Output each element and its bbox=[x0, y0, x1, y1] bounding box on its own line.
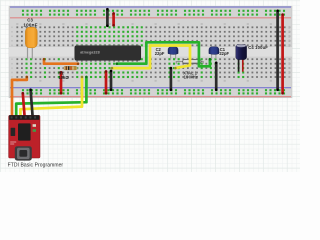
svg-text:16 MHz: 16 MHz bbox=[184, 75, 198, 80]
wire: yellow FTDI TX to row j bbox=[20, 77, 82, 117]
capacitor C2 22pF leads bbox=[171, 52, 176, 59]
wire: red jumper far right, top rail to bottom rail bbox=[281, 15, 284, 94]
wire: red jumper row i to + rail (mid) bbox=[105, 72, 108, 94]
capacitor C2 22pF body bbox=[168, 47, 178, 55]
svg-text:100nF: 100nF bbox=[23, 22, 37, 27]
main grid holes rows f-j bbox=[16, 58, 290, 78]
svg-text:C4 100uF: C4 100uF bbox=[248, 45, 268, 50]
FTDI small component bbox=[11, 128, 16, 136]
wire: black C2 ground to - rail bbox=[170, 68, 173, 90]
wire: orange jumper row f to reset row g bbox=[44, 59, 78, 64]
FTDI status LEDs and silk bbox=[33, 124, 36, 127]
wire: red jumper top rail to IC power column bbox=[112, 14, 115, 26]
resistor R1 10k body bbox=[64, 66, 77, 70]
IC U1 atmega328 body bbox=[75, 46, 141, 61]
capacitor C1 22pF body bbox=[209, 47, 219, 55]
resistor R1 leads bbox=[62, 67, 78, 69]
wire: black jumper top rail to IC power column bbox=[106, 9, 109, 26]
wire: green XTAL loop pin to C1 column bbox=[117, 42, 210, 66]
capacitor C1 22pF leads bbox=[212, 52, 216, 59]
capacitor C3 100nF leads bbox=[28, 44, 33, 59]
svg-text:10kΩ: 10kΩ bbox=[58, 75, 69, 80]
breadboard margin markings bbox=[11, 23, 290, 82]
power rail red line (top) bbox=[10, 17, 291, 18]
svg-text:22pF: 22pF bbox=[155, 51, 165, 56]
canvas grid background bbox=[0, 0, 300, 172]
wire: black jumper row i to - rail (mid) bbox=[110, 71, 113, 90]
capacitor C4 100uF negative lead (black) bbox=[238, 58, 240, 72]
power rail blue line (top) bbox=[10, 6, 291, 7]
svg-text:atmega328: atmega328 bbox=[80, 50, 100, 54]
capacitor C3 100nF body bbox=[25, 27, 37, 48]
crystal XTAL1 16 MHz body bbox=[183, 59, 201, 64]
capacitor C4 100uF body bbox=[236, 44, 247, 59]
svg-text:22pF: 22pF bbox=[219, 51, 229, 56]
wire: yellow XTAL loop pin to C2 column bbox=[112, 46, 190, 69]
wire: red FTDI power to + rail bbox=[23, 93, 25, 116]
breadboard center channel bbox=[9, 47, 292, 57]
wire: black FTDI ground to - rail bbox=[31, 90, 33, 117]
FTDI Basic Programmer board bbox=[9, 115, 40, 158]
FTDI IC chip bbox=[18, 123, 31, 140]
breadboard body bbox=[9, 6, 292, 98]
wire: green FTDI RX to row j bbox=[16, 77, 86, 117]
power rail blue line (bottom) bbox=[10, 87, 291, 88]
svg-text:FTDI Basic Programmer: FTDI Basic Programmer bbox=[8, 162, 64, 168]
main grid holes rows a-e bbox=[16, 26, 290, 46]
power rail red line (bottom) bbox=[10, 96, 291, 97]
wire: red jumper row i to + rail (left) bbox=[60, 72, 63, 93]
wire: orange from row j to FTDI VCC bbox=[12, 77, 27, 117]
power rail holes (all connected, green) bbox=[22, 10, 285, 95]
crystal XTAL1 leads bbox=[176, 62, 203, 64]
FTDI mini-USB connector bbox=[15, 146, 32, 160]
wire: black C1 ground to - rail bbox=[215, 63, 218, 90]
capacitor C4 100uF positive lead (red) bbox=[242, 58, 244, 72]
op: IC U1 atmega328 DIP-28 pins bbox=[76, 44, 138, 62]
FTDI header strip bbox=[9, 115, 39, 120]
wire: black jumper far right, top rail to bottom rail bbox=[276, 11, 279, 90]
